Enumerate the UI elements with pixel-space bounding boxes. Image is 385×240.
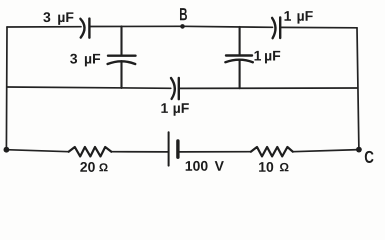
value label 100 V — [186, 161, 224, 171]
value label 10 Ω — [259, 162, 288, 172]
node C label — [365, 151, 374, 163]
wire branch C1 upper lead — [120, 26, 122, 55]
wire top segment 3 — [281, 26, 357, 28]
wire bottom segment 3 — [179, 151, 251, 153]
wire branch C1 lower lead — [120, 61, 122, 88]
wire right vertical — [357, 28, 359, 150]
capacitor 1 µF (vertical branch) — [225, 56, 252, 63]
wire bottom segment 1 — [6, 150, 68, 152]
capacitor 1 µF (middle, horizontal) — [171, 78, 179, 99]
wire bottom segment 2 — [111, 151, 167, 153]
wire branch C2 lower lead — [239, 60, 241, 88]
wire middle segment 2 — [180, 87, 358, 89]
capacitor 1 µF (top right, horizontal) — [272, 17, 280, 38]
node C junction dot — [356, 147, 362, 153]
value label 1 µF (vertical branch) — [254, 51, 280, 64]
wire middle segment 1 — [7, 87, 171, 88]
wire bottom segment 4 — [293, 150, 359, 152]
wire top segment 1 — [7, 26, 81, 28]
wire branch C2 upper lead — [239, 27, 241, 55]
battery 100 V — [169, 132, 178, 165]
node B junction dot — [180, 24, 185, 29]
node bottom-left junction dot — [4, 147, 10, 153]
value label 1 µF (middle) — [161, 103, 188, 116]
value label 3 µF (vertical branch) — [70, 54, 100, 67]
value label 3 µF (top left) — [43, 12, 73, 25]
value label 1 µF (top right) — [284, 11, 312, 24]
resistor 20 Ω — [69, 147, 112, 156]
wire top segment 2 — [91, 26, 273, 27]
capacitor 3 µF (vertical branch) — [108, 56, 136, 64]
wire left vertical — [5, 27, 8, 150]
node B label — [180, 8, 187, 20]
value label 20 Ω — [80, 162, 107, 172]
capacitor 3 µF (top left, horizontal) — [80, 19, 89, 38]
resistor 10 Ω — [251, 147, 293, 156]
